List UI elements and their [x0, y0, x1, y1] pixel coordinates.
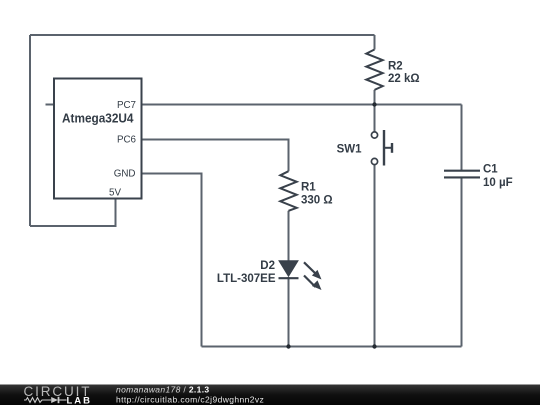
wire left side (5V net) [29, 35, 31, 226]
wire D2 to GND rail [288, 277, 290, 347]
pin 5V label [109, 187, 121, 198]
wire SW1 top [374, 105, 376, 133]
svg-text:Atmega32U4: Atmega32U4 [62, 111, 134, 126]
svg-text:PC6: PC6 [117, 135, 137, 146]
wire GND net [142, 174, 202, 347]
wire SW1 bottom [374, 164, 376, 346]
pin GND label [114, 169, 136, 180]
LED D2 [279, 261, 322, 290]
CircuitLab logo wordmark CIRCUIT [24, 384, 91, 399]
svg-text:LTL-307EE: LTL-307EE [217, 273, 276, 285]
label SW1 [337, 144, 363, 156]
svg-text:C1: C1 [483, 164, 498, 176]
wire R1 to D2 [288, 211, 290, 261]
svg-text:PC7: PC7 [117, 100, 136, 111]
pin PC7 label [117, 100, 136, 111]
wire PC7 left stub [46, 104, 55, 106]
IC U1 Atmega32U4 body [54, 79, 142, 199]
svg-text:330 Ω: 330 Ω [301, 195, 333, 207]
svg-text:R1: R1 [301, 182, 316, 194]
footer user / version text [116, 385, 210, 395]
footer url text [116, 395, 264, 405]
wire top rail (5V net) [30, 34, 375, 36]
logo wordmark LAB [67, 395, 92, 405]
svg-text:nomanawan178 / 2.1.3: nomanawan178 / 2.1.3 [116, 385, 210, 395]
capacitor C1 [444, 171, 480, 178]
svg-text:5V: 5V [109, 187, 121, 198]
svg-text:10 µF: 10 µF [483, 177, 513, 189]
svg-text:GND: GND [114, 169, 136, 180]
wire R2 bottom stub [374, 90, 376, 105]
label C1 value [483, 164, 513, 190]
svg-text:LAB: LAB [67, 395, 92, 405]
logo resistor-diode symbol [24, 397, 67, 403]
wire bottom rail (GND net) [202, 346, 462, 348]
junction node PC7/R2/SW1 [372, 102, 376, 106]
svg-text:D2: D2 [260, 260, 275, 272]
label R2 value [388, 61, 420, 86]
wire PC7 net horizontal [142, 104, 462, 106]
svg-text:http://circuitlab.com/c2j9dwgh: http://circuitlab.com/c2j9dwghnn2vz [116, 395, 264, 405]
wire PC6 to R1 [142, 140, 289, 172]
switch SW1 pushbutton [371, 130, 392, 166]
junction node D2/GND rail [286, 344, 290, 348]
resistor R2 [366, 50, 382, 90]
wire bottom-left to 5V pin [30, 199, 116, 227]
junction node SW1/GND rail [372, 344, 376, 348]
resistor R1 [280, 171, 296, 211]
pin PC6 label [117, 135, 137, 146]
label R1 value [301, 182, 333, 207]
footer bar [0, 385, 540, 405]
wire C1 top [461, 105, 463, 171]
svg-text:22 kΩ: 22 kΩ [388, 73, 420, 85]
label D2 [217, 260, 276, 285]
wire C1 bottom [461, 178, 463, 347]
svg-text:R2: R2 [388, 61, 403, 73]
svg-text:SW1: SW1 [337, 144, 363, 156]
wire R2 top stub [374, 35, 376, 50]
